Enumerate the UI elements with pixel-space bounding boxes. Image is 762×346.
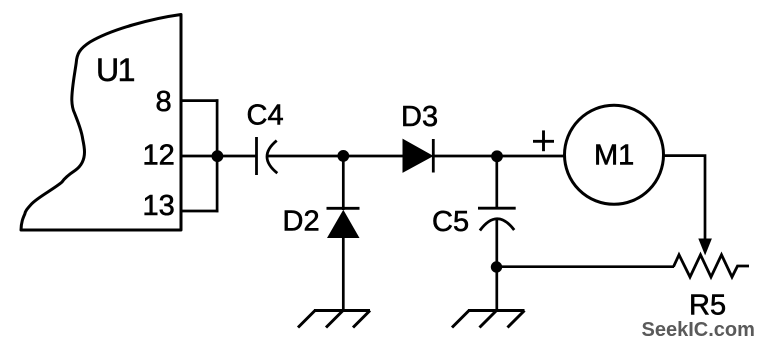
ground under C5	[452, 311, 525, 328]
diode D2	[283, 156, 360, 311]
wire pin 12 to C4	[181, 155, 257, 158]
svg-text:M1: M1	[594, 140, 634, 172]
svg-text:C4: C4	[247, 99, 284, 131]
wire bottom rail C5 to R5	[496, 265, 674, 268]
ground under D2	[298, 311, 370, 328]
svg-text:R5: R5	[689, 289, 726, 321]
motor M1	[565, 105, 664, 204]
svg-text:13: 13	[143, 190, 175, 222]
node junction C5 tap	[491, 150, 503, 162]
svg-text:D2: D2	[283, 205, 320, 237]
svg-text:12: 12	[143, 139, 175, 171]
capacitor C4	[247, 99, 284, 175]
wire M1 to arrow corner	[663, 156, 705, 240]
node junction at bus pin 12	[212, 150, 224, 162]
wire C4 to D3	[266, 155, 404, 158]
svg-text:D3: D3	[401, 101, 438, 133]
capacitor C5	[432, 156, 516, 311]
svg-text:C5: C5	[432, 206, 469, 238]
wiper arrow onto R5	[698, 239, 712, 256]
resistor R5	[674, 255, 750, 321]
wire pin 8 to bus	[181, 99, 219, 102]
node junction D2 tap	[337, 150, 349, 162]
IC U1	[21, 15, 181, 231]
diode D3	[401, 101, 438, 173]
wire bus vertical	[216, 99, 219, 212]
node junction bottom rail	[491, 261, 502, 272]
svg-text:8: 8	[156, 86, 172, 118]
svg-text:U1: U1	[96, 52, 135, 88]
wire D3 to M1	[433, 155, 565, 158]
svg-text:SeekIC.com: SeekIC.com	[642, 319, 755, 341]
plus polarity mark	[533, 130, 554, 151]
wire pin 13 to bus	[181, 210, 219, 213]
